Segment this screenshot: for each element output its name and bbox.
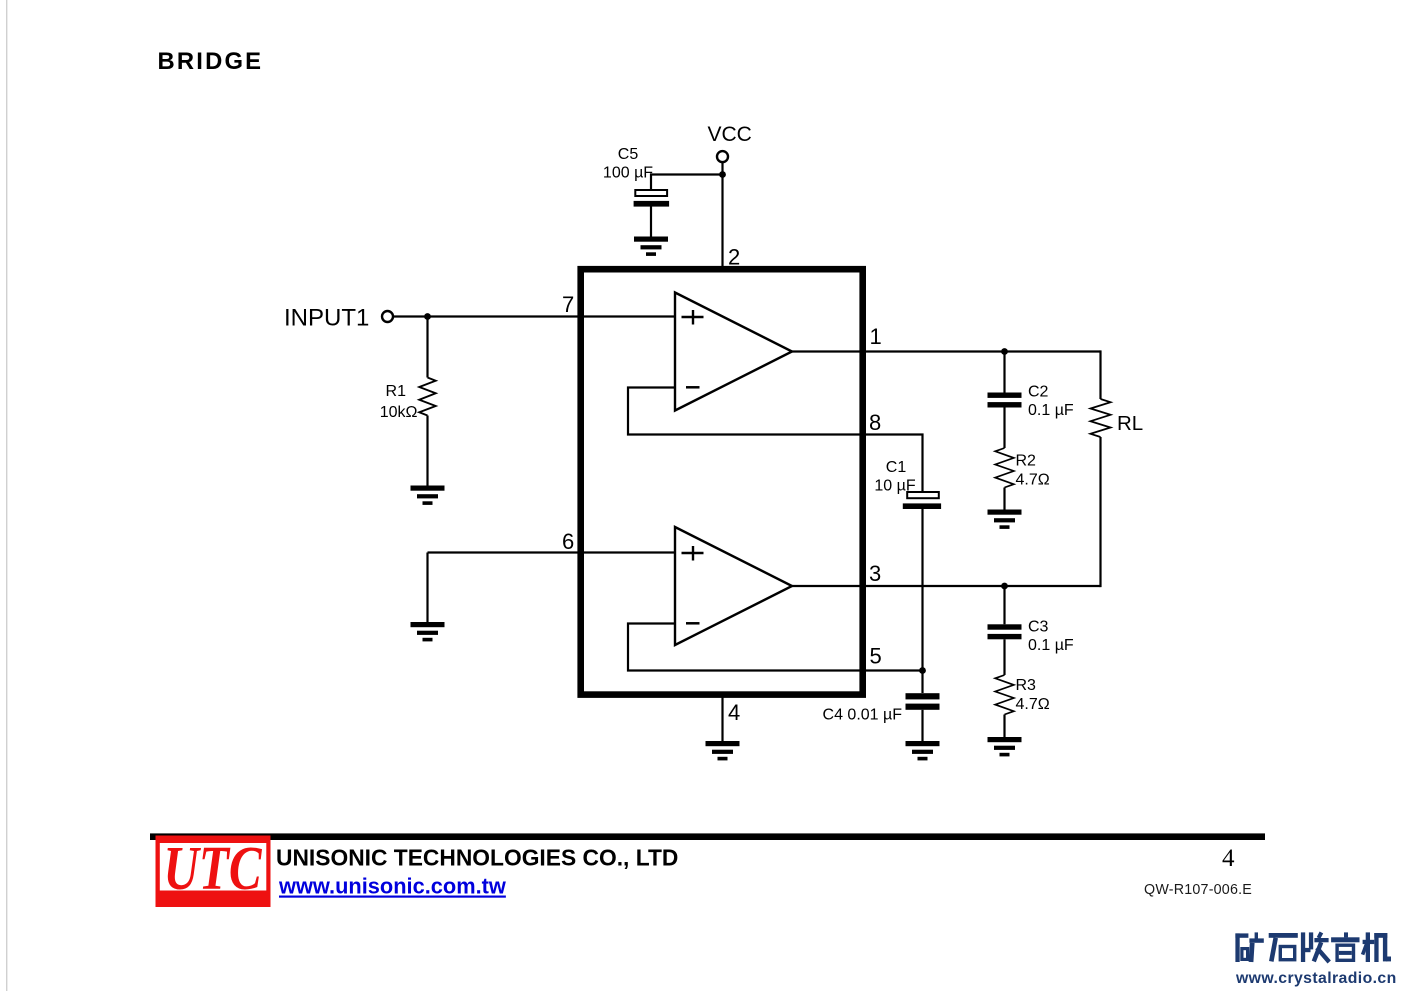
capacitor C3 [988, 624, 1022, 639]
svg-text:BRIDGE: BRIDGE [158, 48, 264, 75]
svg-text:VCC: VCC [708, 123, 752, 146]
svg-text:RL: RL [1117, 412, 1143, 435]
junction pin5 node [919, 667, 926, 674]
watermark char yin [1331, 932, 1359, 960]
wire VCC vertical to pin2 [721, 163, 723, 267]
ground under pin 4 [706, 741, 740, 760]
terminal VCC [717, 151, 728, 162]
svg-text:QW-R107-006.E: QW-R107-006.E [1144, 882, 1252, 898]
op-amp A1 plus input mark [682, 310, 704, 325]
svg-text:10kΩ: 10kΩ [380, 404, 418, 421]
junction output3 node [1001, 583, 1008, 590]
wire C1 to pin5 node [921, 509, 923, 693]
wire RL bottom leg [1099, 437, 1101, 587]
op-amp IC box U1 [581, 269, 863, 694]
op-amp A1 [675, 293, 792, 411]
wire C3 to R3 [1003, 639, 1005, 675]
resistor R3 [995, 675, 1014, 715]
ground under C4 [906, 741, 940, 760]
op-amp A2 [675, 527, 792, 645]
ground under R2 [988, 510, 1022, 529]
wire R1 to ground [426, 416, 428, 486]
svg-text:INPUT1: INPUT1 [284, 305, 369, 332]
wire pin 3 output [791, 585, 1101, 587]
watermark char shou [1301, 932, 1329, 962]
svg-text:4.7Ω: 4.7Ω [1016, 472, 1050, 489]
wire node3 to C3 [1003, 586, 1005, 624]
watermark char kuang [1235, 932, 1263, 962]
ground under R3 [988, 737, 1022, 756]
wire R3 to ground [1003, 715, 1005, 738]
capacitor C4 [906, 693, 940, 710]
op-amp A1 minus input mark [686, 386, 700, 389]
wire node1 to C2 [1003, 352, 1005, 393]
wire input to R1 [426, 317, 428, 378]
resistor RL [1091, 399, 1111, 437]
svg-text:www.crystalradio.cn: www.crystalradio.cn [1235, 970, 1397, 987]
wire C4 to ground [921, 710, 923, 741]
svg-text:0.1 µF: 0.1 µF [1028, 637, 1074, 654]
svg-text:UTC: UTC [164, 834, 263, 903]
svg-text:4: 4 [728, 700, 740, 725]
svg-text:R3: R3 [1016, 677, 1037, 694]
svg-text:0.1 µF: 0.1 µF [1028, 402, 1074, 419]
svg-text:C5: C5 [618, 146, 639, 163]
resistor R2 [995, 448, 1014, 488]
wire pin 1 output [791, 350, 1101, 352]
svg-text:5: 5 [870, 644, 882, 669]
terminal INPUT1 [382, 311, 393, 322]
svg-text:4.7Ω: 4.7Ω [1016, 696, 1050, 713]
wire INPUT1 to pin7 [393, 315, 675, 317]
ground under pin 6 [411, 622, 445, 641]
junction input node [424, 313, 431, 320]
svg-text:C4 0.01 µF: C4 0.01 µF [823, 707, 903, 724]
svg-text:www.unisonic.com.tw: www.unisonic.com.tw [278, 874, 506, 899]
junction VCC node [719, 171, 726, 178]
svg-text:C3: C3 [1028, 619, 1049, 636]
wire C5 top lead [650, 173, 652, 190]
svg-text:8: 8 [869, 410, 881, 435]
svg-text:R1: R1 [386, 383, 407, 400]
watermark char ji [1363, 932, 1391, 962]
wire A2 feedback pin 5 [628, 624, 923, 671]
wire C2 to R2 [1003, 408, 1005, 449]
svg-text:2: 2 [728, 245, 740, 270]
svg-text:UNISONIC TECHNOLOGIES CO., LTD: UNISONIC TECHNOLOGIES CO., LTD [276, 845, 678, 871]
wire pin6 ground leg [426, 553, 428, 623]
wire VCC to C5 [650, 173, 723, 175]
svg-text:3: 3 [869, 561, 881, 586]
svg-text:R2: R2 [1016, 453, 1037, 470]
capacitor C2 [988, 393, 1022, 408]
op-amp A2 plus input mark [682, 546, 704, 561]
wire R2 to ground [1003, 488, 1005, 510]
ground under C5 [634, 237, 668, 256]
svg-text:7: 7 [562, 292, 574, 317]
UTC logo [156, 834, 271, 907]
svg-text:4: 4 [1222, 845, 1235, 872]
svg-text:6: 6 [562, 529, 574, 554]
resistor R1 [419, 378, 435, 416]
junction output1 node [1001, 348, 1008, 355]
wire pin4 to ground [721, 695, 723, 742]
footer rule bar [150, 833, 1265, 840]
wire C5 bottom lead [650, 206, 652, 237]
wire A1 feedback pin 8 [628, 388, 923, 493]
wire pin6 to ground branch [428, 551, 676, 553]
wire RL top leg [1099, 350, 1101, 399]
scan edge line [6, 0, 7, 991]
svg-text:C1: C1 [886, 459, 907, 476]
watermark char shi [1269, 933, 1298, 961]
svg-text:1: 1 [870, 324, 882, 349]
svg-text:100 µF: 100 µF [603, 165, 653, 182]
capacitor C5 (electrolytic) [634, 190, 670, 207]
ground under R1 [411, 486, 445, 505]
op-amp A2 minus input mark [686, 622, 700, 625]
svg-text:C2: C2 [1028, 384, 1049, 401]
capacitor C1 (electrolytic) [903, 492, 941, 509]
